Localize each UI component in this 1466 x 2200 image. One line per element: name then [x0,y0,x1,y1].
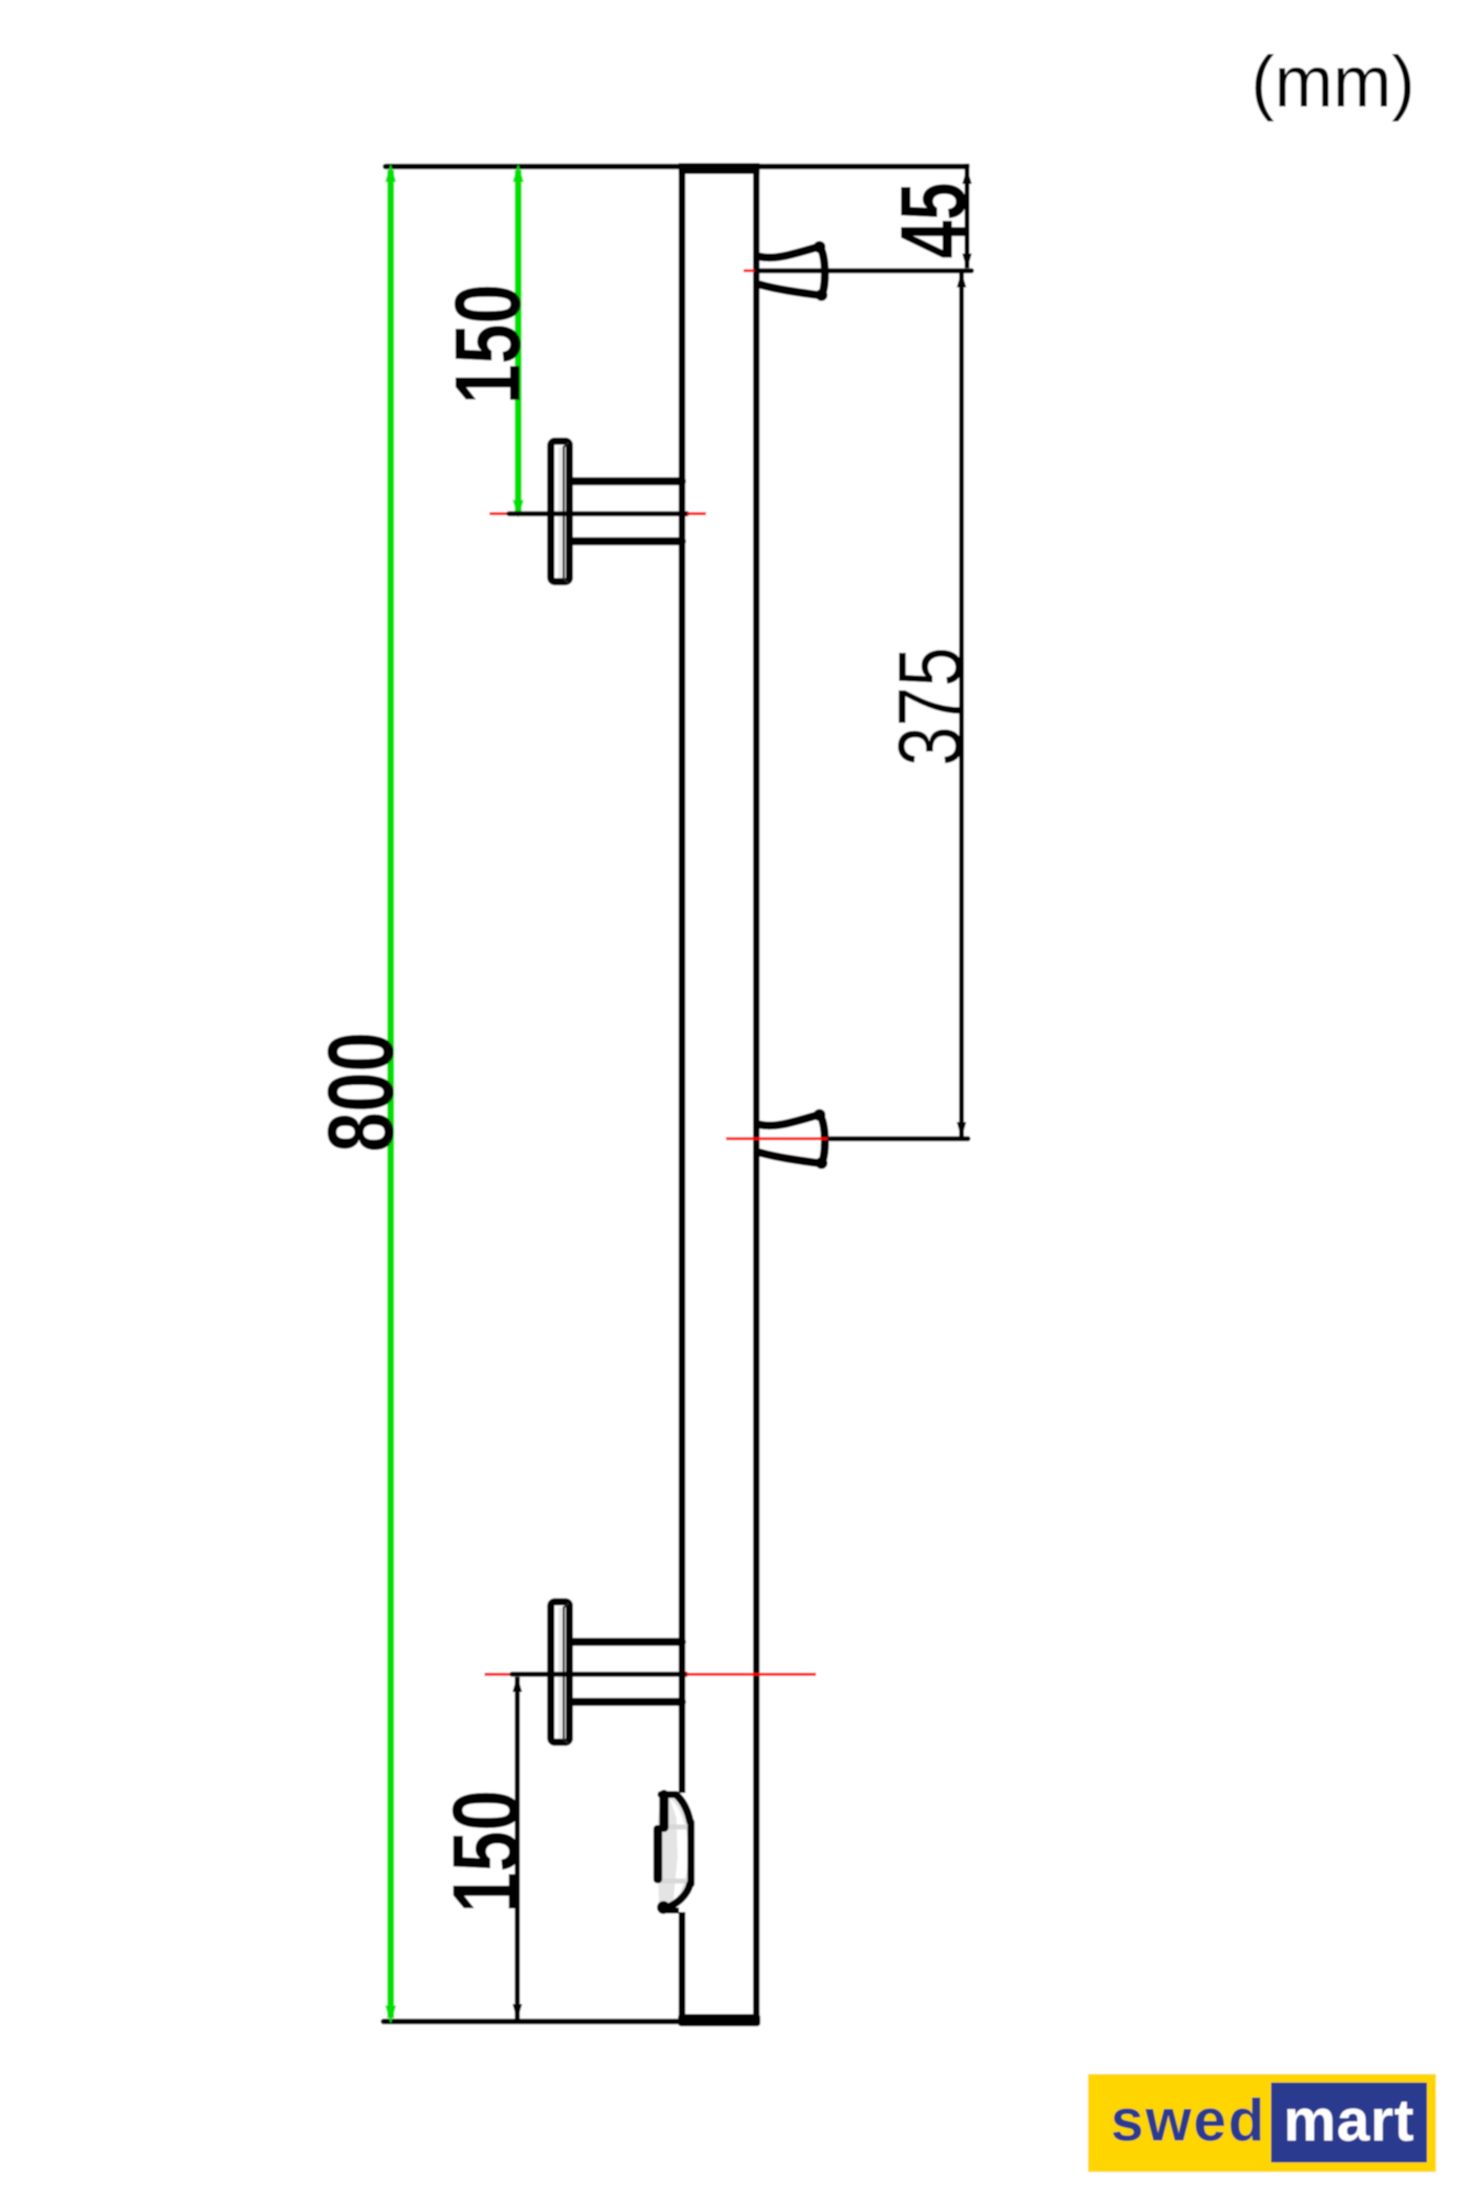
bar left edge (lower segment) [679,1912,686,2022]
slot body fill [658,1794,693,1911]
slot top edge [661,1791,676,1798]
bar left edge (upper segment) [679,167,686,1794]
dimension 375 line [959,272,964,1137]
slot bottom short line [667,1908,679,1914]
svg-text:375: 375 [881,647,981,766]
wall knob 2 (middle peg) [760,1115,825,1164]
bar right edge [753,167,760,2022]
bottom outline line [384,2019,691,2025]
dimension 375 text [881,647,981,766]
svg-text:(mm): (mm) [1251,42,1415,123]
svg-text:150: 150 [436,284,540,404]
bracket 2 centerline black [512,1672,686,1677]
slot right bar [687,1822,694,1884]
knob 1 extension line [757,268,972,273]
knob 1 red centerline tick [744,269,755,272]
wall bracket 2 (bottom) [485,1602,817,1744]
bracket 2 flange shading [558,1608,562,1739]
slot upper-left bar [659,1790,668,1832]
slot lower-left bar [653,1825,662,1883]
bar bottom end cap [678,2014,760,2026]
dimension 800 line (green) [387,170,394,2018]
slot bottom diagonal [667,1884,691,1908]
slot right curved edge [677,1795,691,1822]
bottom slot (end fitting) [653,1790,692,1914]
bracket 2 centerline red right [686,1673,816,1676]
wall knob 1 (top peg) [760,247,825,296]
slot gray ticks [662,1825,687,1830]
logo blue panel [1271,2083,1427,2163]
unit label (mm) [1251,42,1415,123]
swedmart logo [1088,2074,1436,2172]
bracket 1 stem top [570,477,682,485]
bracket 1 stem bottom [570,537,682,545]
bar top end cap [679,163,760,174]
svg-text:150: 150 [434,1790,540,1913]
dimension 150 bottom text [434,1790,540,1913]
logo yellow panel [1088,2074,1436,2172]
top outline line [386,164,968,170]
knob 2 extension line [830,1136,968,1141]
bracket 1 flange inner edge [563,446,565,580]
bracket 2 stem top [570,1638,682,1646]
dimension 150 bottom line [515,1677,520,2019]
slot tip dot [657,1901,670,1914]
bracket 2 stem bottom [570,1698,682,1706]
slot body white highlight [670,1799,689,1903]
bracket 1 centerline red left [490,512,510,515]
dimension 150 top text [436,284,540,404]
svg-text:800: 800 [309,1032,413,1152]
bracket 2 flange inner edge [563,1607,565,1741]
svg-text:45: 45 [882,182,985,258]
bracket 2 centerline red left [485,1673,513,1676]
svg-text:swed: swed [1111,2088,1267,2154]
bracket 2 flange plate [551,1602,570,1742]
dimension 45 line [965,164,970,269]
knob 2 red centerline [726,1137,830,1140]
bracket 1 centerline red right [687,512,706,515]
svg-text:mart: mart [1283,2088,1414,2154]
dimension 800 text [309,1032,413,1152]
bracket 1 flange shading [558,447,562,578]
wall bracket 1 (top) [490,441,707,583]
bracket 1 centerline black [509,511,687,516]
dimension 150 top line (green) [515,170,522,513]
dimension 45 text [882,182,985,258]
bracket 1 flange plate [551,441,570,581]
